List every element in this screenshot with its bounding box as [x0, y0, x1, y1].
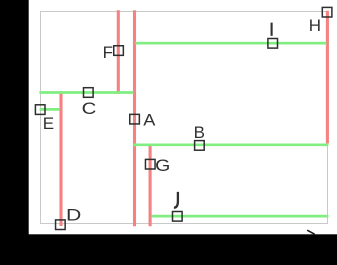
- marker square B: [195, 141, 205, 151]
- marker square J: [173, 212, 183, 222]
- plot border rect: [41, 12, 328, 224]
- svg-text:D: D: [66, 206, 81, 225]
- svg-text:B: B: [194, 123, 205, 142]
- svg-text:C: C: [82, 99, 97, 118]
- svg-text:F: F: [103, 43, 113, 62]
- marker square C: [84, 88, 94, 98]
- label I (drawn bar): [271, 23, 273, 36]
- marker square I: [268, 39, 278, 49]
- red line R5: [326, 11, 329, 144]
- svg-text:G: G: [155, 156, 170, 175]
- svg-text:A: A: [143, 110, 156, 129]
- green segment I: [135, 42, 326, 45]
- svg-text:H: H: [309, 16, 321, 35]
- green segment C: [39, 91, 133, 94]
- marker square A: [130, 114, 140, 124]
- marker square D: [56, 220, 66, 230]
- green segment B: [133, 143, 328, 146]
- marker square H: [322, 7, 332, 17]
- axis arrowhead barb: [307, 230, 315, 234]
- marker square E: [35, 105, 45, 115]
- red line R4: [149, 144, 152, 226]
- svg-text:E: E: [43, 114, 54, 133]
- green segment J: [152, 215, 329, 218]
- label J (drawn hook glyph): [174, 192, 178, 208]
- marker square F: [114, 46, 124, 56]
- marker square G: [145, 159, 155, 169]
- green segment E: [40, 108, 60, 111]
- red line R3: [59, 92, 62, 226]
- red line R2: [133, 10, 136, 226]
- red line R1: [117, 10, 120, 94]
